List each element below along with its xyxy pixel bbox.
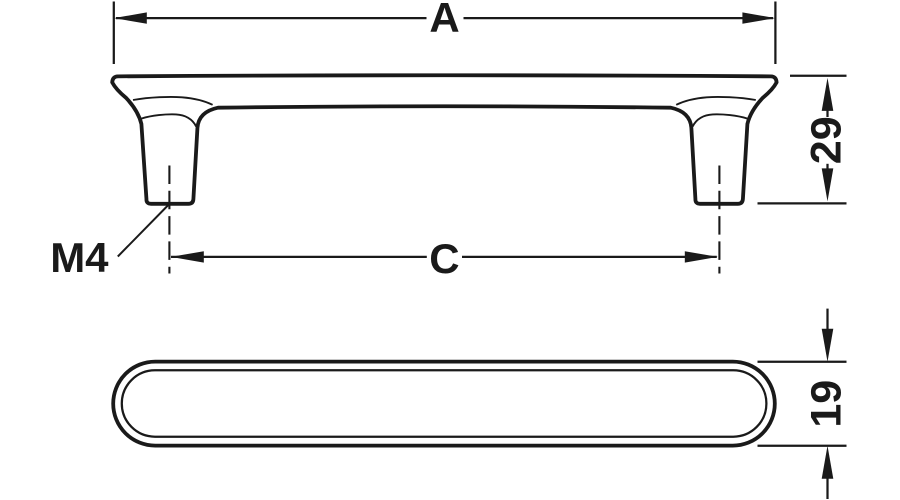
right screw-hole centerline (dashed) (718, 166, 720, 274)
dimension A: right arrowhead (742, 12, 775, 23)
dimension 29: upper arrowhead (822, 78, 834, 111)
left foot upper interior curve (133, 97, 213, 105)
M4 leader line (118, 205, 169, 257)
dimension 29: lower arrowhead (822, 168, 834, 201)
dimension 29: lower line stub (826, 164, 828, 169)
dimension A: line right segment (464, 17, 774, 19)
right foot upper interior curve (676, 97, 756, 105)
dimension C: line right segment (462, 256, 717, 258)
dimension C: left arrowhead (171, 251, 204, 262)
svg-text:C: C (429, 235, 459, 282)
dimension A: left extension line (113, 2, 115, 65)
dimension 29: bottom extension line (758, 202, 847, 204)
dimension A: line left segment (116, 17, 427, 19)
dimension 19: lower arrow tail (826, 478, 828, 499)
dimension C: right arrowhead (685, 251, 718, 262)
dimension A: right extension line (774, 2, 776, 65)
left foot lower interior curve (141, 114, 196, 126)
svg-text:19: 19 (803, 380, 851, 428)
dimension 19: upper arrow tail (826, 309, 828, 330)
dimension A: left arrowhead (114, 12, 147, 23)
dimension 19: upper arrowhead (pointing down) (822, 329, 834, 362)
bottom view: outer stadium outline (113, 362, 775, 446)
dimension 29: upper line stub (826, 110, 828, 117)
handle outline (front view silhouette) (112, 75, 776, 204)
bottom view: inner stadium outline (122, 370, 767, 436)
dimension 19: lower arrowhead (pointing up) (822, 446, 834, 479)
svg-text:M4: M4 (50, 234, 109, 281)
svg-text:29: 29 (803, 116, 851, 164)
svg-text:A: A (429, 0, 459, 41)
dimension C: line left segment (171, 256, 427, 258)
dimension 19: bottom extension line (758, 445, 847, 447)
right foot lower interior curve (693, 114, 748, 126)
left screw-hole centerline (dashed) (168, 166, 170, 274)
dimension 19: top extension line (758, 361, 847, 363)
dimension 29: top extension line (790, 75, 847, 77)
